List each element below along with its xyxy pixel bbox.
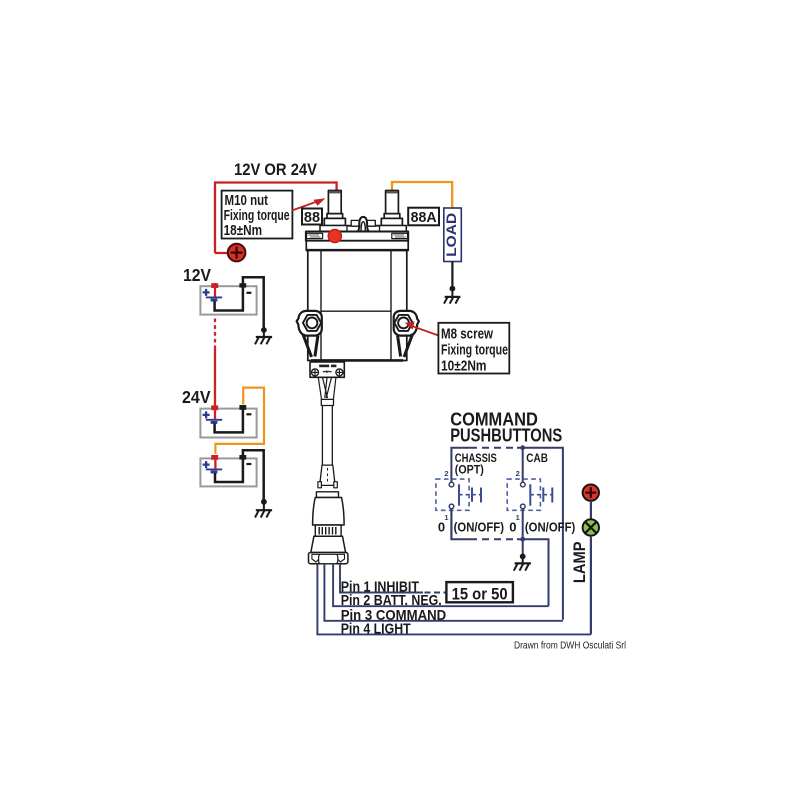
battery B1 minus sign: [246, 292, 251, 294]
battery B1 red lead: [214, 283, 216, 297]
svg-text:(ON/OFF): (ON/OFF): [525, 520, 575, 535]
relay cap lower plate: [306, 241, 408, 251]
svg-text:Drawn from DWH Osculati Srl: Drawn from DWH Osculati Srl: [514, 640, 626, 651]
plug rim: [316, 492, 338, 498]
svg-text:PUSHBUTTONS: PUSHBUTTONS: [450, 426, 562, 446]
svg-text:LOAD: LOAD: [443, 213, 459, 257]
battery B3 plus sign: [203, 461, 210, 468]
plug upper bell: [313, 498, 345, 526]
LOAD box: [443, 208, 461, 262]
svg-text:2: 2: [516, 469, 520, 478]
relay terminal stud 88 (left): [324, 191, 345, 226]
wire CAB to ground: [522, 509, 524, 557]
relay cable connector block: [310, 362, 344, 377]
svg-text:10±2Nm: 10±2Nm: [441, 359, 487, 375]
pushbutton S2 CAB: [507, 469, 552, 522]
relay red dot marking: [328, 229, 341, 242]
wire pin1 dashed link to fuse box: [425, 592, 447, 594]
battery B1 internal wire to negative: [215, 277, 264, 327]
relay mounting nut left (M8): [297, 311, 322, 336]
battery B1 negative terminal: [239, 283, 246, 287]
terminal + red circle (positive supply): [215, 244, 245, 262]
wire pin1 stub: [340, 564, 423, 593]
junction dot top rail at CAB: [520, 445, 525, 450]
wire orange terminal 88A to LOAD: [392, 182, 452, 208]
svg-text:M8 screw: M8 screw: [441, 327, 494, 343]
wire CHASSIS bottom to rail: [450, 509, 452, 540]
relay main body: [308, 251, 407, 361]
arrow from M10 box to stud: [292, 198, 326, 210]
wire top rail (command): [451, 448, 563, 620]
svg-text:Fixing torque: Fixing torque: [224, 208, 290, 224]
ground chassis for B3: [255, 499, 272, 518]
junction dot bottom rail at CAB: [520, 537, 525, 542]
arrow M8 screw pointer: [405, 322, 439, 336]
battery B2 internal wire: [215, 406, 243, 432]
relay cable sleeve: [321, 399, 333, 405]
terminal label 88: [302, 209, 322, 227]
battery B2 minus sign: [246, 413, 251, 415]
wire red solid to B2: [214, 346, 216, 407]
svg-text:18±Nm: 18±Nm: [224, 223, 263, 239]
lamp bulb symbol: [583, 519, 599, 535]
battery B3 internal wire to negative and ground: [215, 450, 264, 499]
battery B2 case: [200, 409, 256, 438]
battery B3 red lead: [214, 455, 216, 469]
relay cap plate: [306, 232, 408, 241]
svg-text:Fixing torque: Fixing torque: [441, 343, 508, 359]
relay mounting nut right (M8): [394, 311, 419, 336]
plug lower bell: [311, 536, 346, 552]
wire CAB vertical top: [522, 448, 524, 483]
relay terminal stud 88A (right): [381, 191, 402, 226]
relay mounting leg left: [303, 334, 318, 357]
svg-text:(OPT): (OPT): [455, 462, 484, 476]
battery B1 cell symbol: [206, 296, 222, 298]
relay cable: [322, 406, 332, 466]
svg-text:Pin 4 LIGHT: Pin 4 LIGHT: [341, 622, 411, 638]
svg-text:M10 nut: M10 nut: [225, 193, 269, 209]
terminal label 88A: [408, 208, 439, 226]
relay cable wire funnel: [318, 378, 336, 405]
ground chassis under CAB: [514, 554, 531, 571]
svg-text:LAMP: LAMP: [570, 542, 589, 584]
battery B1 positive terminal: [211, 283, 218, 288]
svg-text:0: 0: [438, 520, 445, 535]
relay mounting leg right: [398, 334, 413, 357]
wire LOAD to ground: [451, 262, 453, 288]
svg-text:CAB: CAB: [526, 451, 548, 465]
svg-text:Pin 2 BATT. NEG.: Pin 2 BATT. NEG.: [341, 593, 442, 609]
battery B1 case: [200, 286, 256, 314]
battery B1 plus sign: [203, 289, 210, 296]
battery B3 negative terminal: [239, 455, 246, 460]
note box M8 screw fixing torque: [438, 323, 509, 375]
fuse box 15 or 50: [446, 582, 513, 603]
wire pin4 stub: [317, 564, 591, 635]
wire bottom rail (batt neg): [451, 509, 548, 607]
plug mid band with vents: [315, 525, 341, 536]
wire pin2 stub: [333, 564, 548, 606]
relay cap upper band: [320, 226, 406, 232]
svg-text:12V: 12V: [183, 265, 211, 285]
svg-text:88: 88: [304, 210, 320, 226]
wire pin3 stub: [324, 564, 563, 621]
wire between lamp symbols: [590, 501, 592, 520]
battery B3 case: [200, 458, 256, 486]
svg-text:12V OR 24V: 12V OR 24V: [234, 160, 318, 179]
battery B3 minus sign: [246, 463, 251, 465]
battery B2 red lead: [214, 406, 216, 419]
svg-text:88A: 88A: [411, 210, 438, 226]
svg-text:15 or 50: 15 or 50: [452, 585, 508, 603]
lamp positive supply symbol: [583, 484, 599, 500]
plug flange: [309, 553, 348, 564]
battery B2 plus sign: [203, 411, 210, 418]
battery B3 positive terminal: [211, 455, 218, 460]
pushbutton S1 CHASSIS (optional): [436, 469, 481, 522]
svg-text:(ON/OFF): (ON/OFF): [454, 520, 504, 535]
wire red positive feed (battery bus to terminal 88): [215, 183, 337, 254]
wire red dashed 12V/24V option link: [214, 319, 216, 346]
battery B2 cell symbol: [206, 419, 222, 421]
wire orange B2 negative to B3 positive: [215, 388, 264, 454]
svg-text:24V: 24V: [182, 387, 211, 407]
svg-text:0: 0: [509, 520, 516, 535]
relay center bracket: [347, 217, 380, 232]
wire lamp to pin 4: [590, 536, 592, 635]
battery B3 cell symbol: [206, 468, 222, 470]
ground chassis for B1: [255, 327, 272, 344]
battery B2 positive terminal: [211, 405, 218, 410]
note box M10 nut fixing torque: [222, 191, 293, 239]
battery B2 negative terminal: [239, 405, 246, 410]
svg-text:2: 2: [444, 469, 448, 478]
ground chassis under LOAD: [444, 286, 460, 304]
cable boot: [318, 465, 337, 488]
plug pin stub wires: [317, 564, 591, 635]
